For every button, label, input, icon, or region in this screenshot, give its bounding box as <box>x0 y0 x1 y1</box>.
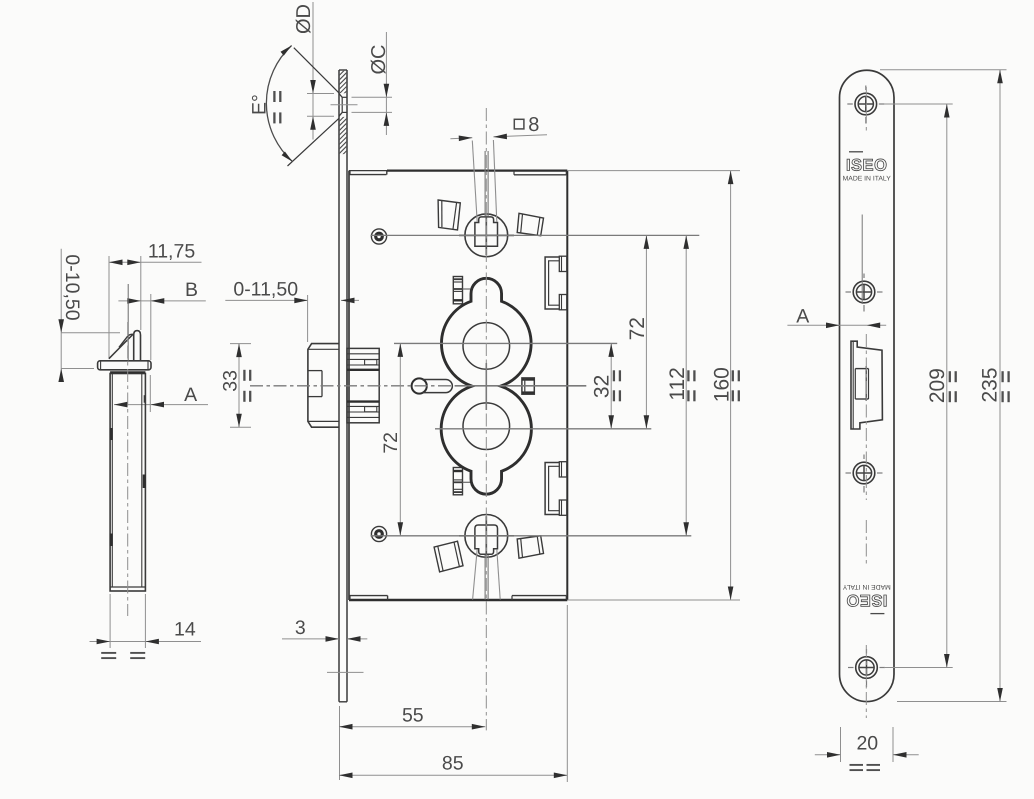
middle view: top follower centerline <box>371 234 700 236</box>
right view: ISEO logo (top) <box>843 152 892 183</box>
middle view: case bottom lip <box>349 595 388 597</box>
right view: plate bottom extension line <box>897 701 1007 703</box>
middle view: faceplate lower hole centermark <box>327 671 364 673</box>
middle view: spindle shaft lines <box>484 151 486 216</box>
middle view: dimension 85 (case depth) <box>566 605 568 782</box>
right view: latch bolt tongue in opening <box>855 368 868 370</box>
svg-text:11,75: 11,75 <box>148 241 196 263</box>
svg-text:A: A <box>184 384 197 406</box>
right view: ISEO logo (bottom, rotated 180) <box>842 583 891 614</box>
right view: screw hole 2 <box>846 291 852 293</box>
middle view: top cylinder centerline <box>394 342 617 344</box>
middle view: upper spring stack <box>453 277 462 304</box>
right view: hole-4 centermark extension <box>884 667 953 669</box>
svg-text:E°: E° <box>249 94 271 115</box>
svg-text:MADE IN ITALY: MADE IN ITALY <box>843 176 892 183</box>
svg-text:235: 235 <box>979 367 1002 402</box>
middle view: bottom follower square hole <box>475 525 498 554</box>
svg-text:33: 33 <box>220 370 242 392</box>
middle view: lock case outline <box>349 170 387 172</box>
svg-text:ISEO: ISEO <box>846 591 887 609</box>
middle view: spindle projection lines to square <box>472 141 477 223</box>
middle view: dimension 33 (latch height) <box>230 343 251 345</box>
middle view: bottom follower circle <box>465 515 508 558</box>
right view: dimension 20 (plate width) <box>840 727 842 762</box>
middle view: upper-left screw post (trapezoid) <box>438 200 460 230</box>
middle view: dimension 72 right <box>645 235 647 428</box>
right view: faceplate outline (stadium) <box>840 70 895 701</box>
middle view: lower-left screw post (trapezoid) <box>434 541 463 572</box>
middle view: dimension 55 (backset) <box>339 706 341 780</box>
middle view: dimension 112 (follower spacing) <box>685 235 687 535</box>
svg-text:ISEO: ISEO <box>846 157 887 175</box>
middle view: latch axis centerline <box>250 385 455 387</box>
right view: screw hole 4 (bottom) <box>848 667 854 669</box>
middle view: bottom spindle projection lines <box>473 549 478 599</box>
middle view: faceplate bar (edge-on) <box>338 70 340 702</box>
middle view: dimension 160 (case height) <box>730 171 732 600</box>
right view: screw hole 3 <box>846 472 852 474</box>
right view: plate centerline <box>865 87 867 133</box>
left view: dimension B <box>118 300 205 302</box>
middle view: square nut <box>522 378 534 394</box>
middle view: dimension ΦC (hole dia) <box>385 32 387 135</box>
svg-text:MADE IN ITALY: MADE IN ITALY <box>842 583 891 590</box>
middle view: equality marks for 160 <box>732 370 734 381</box>
middle view: upper-right screw post (trapezoid) <box>517 213 543 235</box>
left view: latch bolt head (beveled nose) <box>134 331 141 361</box>
right view: screw hole 1 (top) <box>847 103 853 105</box>
svg-text:0-10,50: 0-10,50 <box>61 254 83 320</box>
middle view: bottom follower centerline <box>371 535 692 537</box>
middle view: top follower square hole (8mm) <box>475 217 498 246</box>
svg-text:ØD: ØD <box>293 4 315 34</box>
middle view: lower rivet <box>371 526 386 541</box>
middle view: countersunk screw hole in faceplate <box>339 94 342 98</box>
svg-text:20: 20 <box>856 733 878 755</box>
right view: plate center seam line <box>861 215 863 305</box>
middle view: double euro-cylinder cutout (heavy outline) <box>441 278 531 494</box>
left view: body edge pin marks <box>110 428 113 440</box>
left view: dimension A (latch body width) <box>114 404 208 406</box>
right view: hole-1 centermark extension <box>884 103 953 105</box>
svg-text:85: 85 <box>442 753 464 775</box>
svg-text:ØC: ØC <box>368 45 390 75</box>
right view: equality marks for 235 <box>1001 371 1003 382</box>
right view: equality marks for 209 <box>949 371 951 382</box>
middle view: lower cylinder body circle <box>463 403 510 450</box>
middle view: countersink angle E deg with arc <box>294 48 339 93</box>
svg-text:112: 112 <box>666 367 689 400</box>
middle view: case bottom edge extension line <box>567 599 740 601</box>
svg-text:55: 55 <box>402 705 424 727</box>
svg-text:160: 160 <box>711 367 734 402</box>
middle view: equality marks for E <box>273 91 275 102</box>
svg-text:72: 72 <box>626 317 649 340</box>
svg-text:A: A <box>796 305 809 327</box>
middle view: bottom cylinder centerline <box>435 428 651 430</box>
right view: latch opening with latch bolt <box>851 341 882 429</box>
middle view: latch bolt head (left of faceplate) <box>308 344 339 428</box>
middle view: lower mounting tab on case back <box>545 463 559 515</box>
middle view: lower-right screw post (trapezoid) <box>517 536 543 558</box>
middle view: vertical centerline <box>485 108 487 730</box>
middle view: lower spring stack <box>453 468 462 495</box>
right view: dimension 235 (plate length) <box>999 70 1001 702</box>
right view: plate top extension line <box>880 69 1007 71</box>
middle view: locating pin <box>412 378 427 393</box>
svg-text:209: 209 <box>926 368 949 403</box>
middle view: latch head recess notch <box>308 370 322 372</box>
left view: dimension 0-10,50 (latch travel) <box>60 249 62 382</box>
middle view: equality marks for 112 <box>687 370 689 381</box>
middle view: equality marks for 33 <box>243 370 245 381</box>
svg-text:72: 72 <box>380 432 402 454</box>
middle view: latch body behind faceplate <box>347 348 379 422</box>
middle view: dimension ΦD (countersink dia) <box>312 2 314 140</box>
svg-text:32: 32 <box>591 375 614 398</box>
left view: dimension 11,75 <box>109 261 202 263</box>
svg-text:3: 3 <box>295 617 306 639</box>
middle view: dimension 72 left <box>399 343 401 535</box>
middle view: case top lip <box>349 174 387 176</box>
svg-text:0-11,50: 0-11,50 <box>233 278 298 300</box>
svg-text:8: 8 <box>528 114 539 136</box>
svg-text:14: 14 <box>174 618 196 640</box>
middle view: dimension 32 (cylinder spacing) <box>610 343 612 428</box>
left view: faceplate flange (side) <box>98 361 151 370</box>
svg-text:B: B <box>185 279 198 301</box>
middle view: upper mounting tab on case back <box>545 257 559 309</box>
left view: latch case body <box>110 374 145 592</box>
left view: vertical centerline <box>127 322 129 616</box>
middle view: equality marks for 32 <box>613 370 615 381</box>
left view: dimension 14 <box>109 594 111 648</box>
middle view: upper cylinder body circle <box>463 323 510 370</box>
right view: equality marks under 20 <box>850 764 864 766</box>
middle view: case top edge extension line <box>567 170 740 172</box>
right view: dimension 209 (screw spacing) <box>946 104 948 668</box>
left view: equality marks under 14 <box>101 652 116 654</box>
middle view: dimension square-8 <box>450 137 472 140</box>
middle view: top handle follower circle <box>465 214 508 257</box>
middle view: upper rivet <box>371 229 386 244</box>
